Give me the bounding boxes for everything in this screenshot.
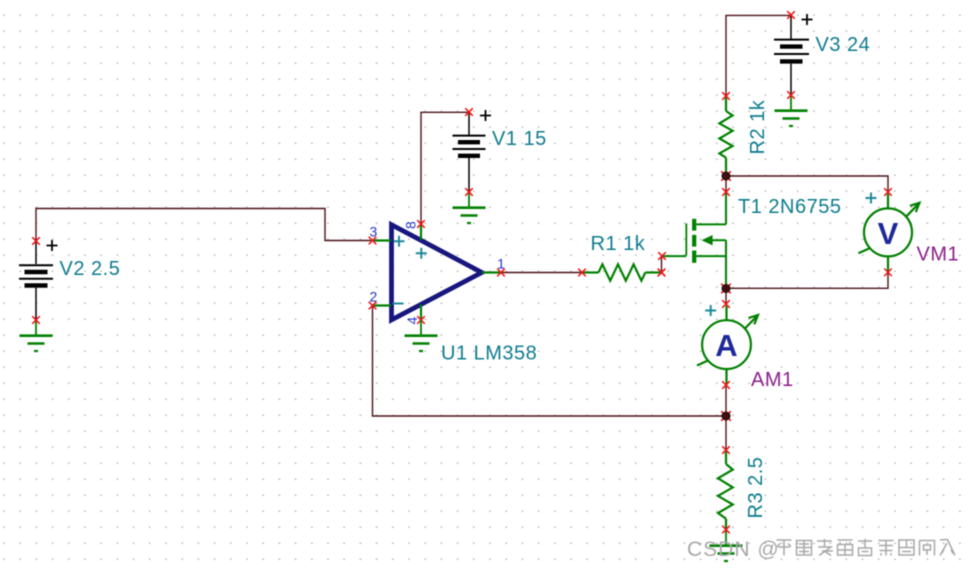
svg-text:R2 1k: R2 1k (747, 99, 769, 154)
svg-text:V2 2.5: V2 2.5 (60, 258, 121, 280)
svg-text:2: 2 (370, 289, 378, 305)
svg-text:VM1: VM1 (917, 244, 960, 266)
svg-text:U1 LM358: U1 LM358 (441, 343, 537, 365)
svg-text:V: V (878, 216, 899, 251)
svg-text:8: 8 (403, 221, 419, 229)
svg-text:T1 2N6755: T1 2N6755 (738, 196, 841, 218)
svg-text:3: 3 (370, 224, 378, 240)
svg-text:AM1: AM1 (751, 369, 794, 391)
svg-text:1: 1 (497, 256, 505, 272)
svg-text:A: A (715, 328, 737, 363)
svg-text:R1 1k: R1 1k (591, 233, 646, 255)
svg-text:4: 4 (404, 317, 420, 325)
svg-text:CSDN @: CSDN @ (687, 538, 780, 561)
svg-text:V1 15: V1 15 (492, 128, 547, 150)
svg-text:V3 24: V3 24 (816, 34, 871, 56)
svg-text:R3 2.5: R3 2.5 (745, 457, 767, 519)
